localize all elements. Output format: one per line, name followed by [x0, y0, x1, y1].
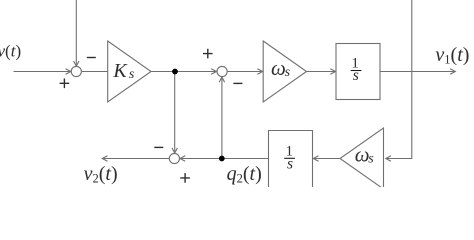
svg-text:ω: ω	[355, 142, 370, 166]
svg-text:K: K	[112, 60, 128, 82]
wire S1 to K_s	[81, 71, 107, 73]
arrow output v1(t)	[450, 69, 455, 74]
wire box2 through node q2 to summer S3	[180, 158, 269, 160]
node junction dot q2	[219, 156, 225, 162]
svg-text:ω: ω	[271, 56, 286, 80]
label plus at summer S3	[180, 173, 190, 183]
summer S2	[217, 66, 227, 76]
wire S2 to omega_s top	[227, 71, 262, 73]
wire node q2 up to summer S2	[221, 77, 223, 159]
integrator block 1/s bottom	[269, 131, 313, 188]
summer S1	[71, 66, 81, 76]
arrow into summer S2 from bottom	[219, 77, 224, 82]
wire node1 down to summer S3	[174, 72, 176, 154]
wire feedback vertical tap	[386, 0, 412, 159]
wire top vertical into summer S1	[75, 0, 77, 66]
label minus at summer S3	[154, 146, 163, 148]
svg-text:s: s	[368, 152, 374, 167]
wire S3 output to v2(t)	[102, 158, 169, 160]
arrow into summer S1 from left	[66, 69, 71, 74]
arrow into integrator box2	[313, 156, 318, 161]
wire K_s to summer S2	[151, 71, 216, 73]
svg-text:s: s	[287, 156, 293, 173]
arrow into omega_s top triangle	[257, 69, 262, 74]
label plus at summer S2	[203, 49, 213, 59]
svg-text:q2(t): q2(t)	[227, 163, 262, 186]
svg-text:s: s	[129, 67, 135, 82]
fraction bar 1/s top	[351, 70, 362, 72]
integrator block 1/s top	[336, 44, 380, 100]
wire omega_s to integrator box1	[307, 71, 336, 73]
node junction dot after K_s	[172, 69, 178, 75]
arrow into summer S1 from top	[74, 61, 79, 66]
svg-text:v2(t): v2(t)	[84, 163, 118, 186]
wire input v(t) horizontal	[14, 71, 71, 73]
arrow into summer S3 from top	[172, 148, 177, 153]
wire omega_s bottom to integrator box2	[313, 158, 340, 160]
label plus at summer S1	[60, 79, 70, 89]
svg-text:v(t): v(t)	[0, 41, 21, 60]
svg-text:s: s	[353, 67, 359, 84]
gain block omega_s bottom triangle	[340, 128, 384, 189]
arrow into summer S3 from right	[180, 156, 185, 161]
wire output to v1(t)	[380, 71, 455, 73]
gain block K_s triangle	[108, 41, 151, 102]
svg-text:v1(t): v1(t)	[435, 44, 469, 67]
gain block omega_s top triangle	[263, 41, 306, 102]
arrow into omega_s bottom triangle	[386, 156, 391, 161]
label minus at summer S1	[87, 57, 96, 59]
arrow into integrator box1	[330, 69, 335, 74]
fraction bar 1/s bottom	[284, 157, 295, 159]
svg-text:s: s	[285, 65, 291, 80]
summer S3	[169, 153, 179, 163]
arrow output v2(t)	[102, 156, 107, 161]
arrow into summer S2 from left	[211, 69, 216, 74]
label minus at summer S2	[233, 82, 242, 84]
